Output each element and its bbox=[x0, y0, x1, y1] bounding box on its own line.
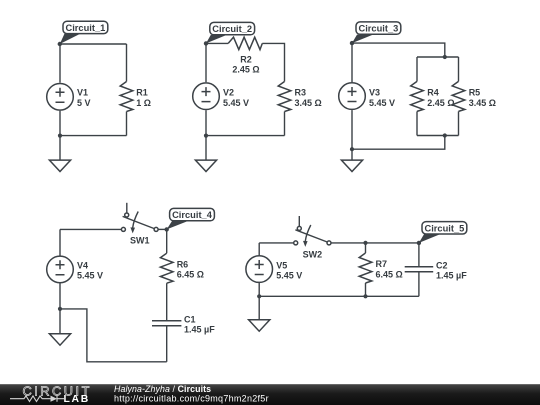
resistor R7 bbox=[359, 253, 403, 283]
resistor R3 bbox=[278, 82, 322, 112]
svg-text:http://circuitlab.com/c9mq7hm2: http://circuitlab.com/c9mq7hm2n2f5r bbox=[114, 394, 269, 404]
wire V2 bottom lead bbox=[205, 110, 207, 135]
wire R6 to C1 bbox=[166, 283, 168, 320]
wire R1 bottom lead bbox=[126, 112, 128, 136]
voltage source V5 bbox=[246, 256, 302, 283]
wire top c1 bbox=[60, 43, 127, 45]
wire V5 bottom lead bbox=[258, 283, 260, 320]
switch SW1 bbox=[121, 203, 158, 246]
wire R3 bottom lead bbox=[284, 112, 286, 136]
svg-text:1.45 µF: 1.45 µF bbox=[184, 325, 215, 335]
node dot c4 bottom junction bbox=[58, 307, 62, 311]
node B c2 (label flag Circuit_2) bbox=[204, 22, 255, 45]
wire C1 bottom lead bbox=[166, 326, 168, 361]
wire ground lead c3 bbox=[351, 149, 353, 160]
node C c3 (label flag Circuit_3) bbox=[350, 22, 401, 45]
capacitor C1 bbox=[152, 314, 215, 334]
node dot c5 R7 top bbox=[363, 241, 367, 245]
wire R6 top lead bbox=[166, 229, 168, 253]
wire bottom rail c3 bbox=[417, 135, 459, 137]
node dot c5 bottom left bbox=[257, 294, 261, 298]
wire top rail c3 bbox=[417, 56, 459, 58]
svg-text:Circuit_2: Circuit_2 bbox=[212, 24, 252, 34]
wire bottom c1 bbox=[60, 135, 127, 137]
wire R1 top lead bbox=[126, 44, 128, 82]
wire bottom c5 bbox=[259, 295, 419, 297]
svg-text:R2: R2 bbox=[240, 55, 252, 65]
resistor R6 bbox=[160, 253, 204, 283]
svg-text:SW2: SW2 bbox=[303, 250, 323, 260]
voltage source V4 bbox=[47, 256, 103, 283]
footer bar bbox=[0, 384, 540, 405]
wire R5 bottom lead bbox=[458, 111, 460, 135]
resistor R4 bbox=[411, 81, 455, 111]
wire top c4 bbox=[60, 228, 121, 230]
wire R7 top lead bbox=[365, 243, 367, 253]
ground c5 bbox=[249, 320, 270, 331]
svg-text:C1: C1 bbox=[184, 314, 196, 324]
svg-text:R6: R6 bbox=[177, 259, 189, 269]
wire V3 bottom lead bbox=[351, 110, 353, 149]
svg-text:3.45 Ω: 3.45 Ω bbox=[469, 98, 496, 108]
svg-text:2.45 Ω: 2.45 Ω bbox=[232, 64, 259, 74]
svg-text:5.45 V: 5.45 V bbox=[77, 271, 103, 281]
ground c4 bbox=[49, 334, 70, 345]
svg-text:6.45 Ω: 6.45 Ω bbox=[376, 270, 403, 280]
svg-text:2.45 Ω: 2.45 Ω bbox=[427, 98, 454, 108]
wire top-left c2 bbox=[206, 42, 228, 44]
switch SW2 bbox=[294, 216, 331, 260]
node dot c1 junction bottom bbox=[58, 134, 62, 138]
wire bottom c4 bbox=[60, 309, 167, 362]
svg-text:Circuit_1: Circuit_1 bbox=[66, 23, 106, 33]
voltage source V3 bbox=[339, 83, 395, 110]
ground c1 bbox=[49, 160, 70, 171]
voltage source V2 bbox=[193, 83, 249, 110]
resistor R5 bbox=[452, 81, 496, 111]
wire top c5 bbox=[259, 242, 293, 244]
svg-text:SW1: SW1 bbox=[130, 236, 150, 246]
node D c4 (label flag Circuit_4) bbox=[165, 208, 215, 231]
resistor R2 (horizontal) bbox=[228, 37, 262, 74]
wire left c5 bbox=[258, 243, 260, 255]
wire top c3 bbox=[352, 43, 445, 57]
node A c1 (label flag Circuit_1) bbox=[58, 21, 108, 46]
wire switch to node c4 bbox=[158, 228, 167, 230]
wire left c2 bbox=[205, 43, 207, 82]
svg-text:Circuit_5: Circuit_5 bbox=[425, 223, 465, 233]
node dot c5 R7 bottom bbox=[363, 294, 367, 298]
capacitor C2 bbox=[405, 260, 468, 280]
svg-text:1 Ω: 1 Ω bbox=[136, 98, 151, 108]
svg-text:R4: R4 bbox=[427, 88, 439, 98]
CircuitLab logo squiggle (resistor + diode) bbox=[10, 396, 64, 402]
wire top-right c2 bbox=[262, 43, 284, 81]
wire bottom c2 bbox=[206, 135, 285, 137]
svg-text:V1: V1 bbox=[77, 88, 88, 98]
node E c5 (label flag Circuit_5) bbox=[417, 222, 467, 245]
svg-text:Circuit_3: Circuit_3 bbox=[359, 24, 399, 34]
ground c2 bbox=[195, 160, 216, 171]
wire ground lead c2 bbox=[205, 136, 207, 161]
svg-text:V2: V2 bbox=[223, 88, 234, 98]
svg-text:LAB: LAB bbox=[64, 394, 90, 405]
node dot c2 junction bottom bbox=[204, 134, 208, 138]
wire C2 top lead bbox=[418, 243, 420, 266]
svg-text:5 V: 5 V bbox=[77, 98, 91, 108]
wire V4 bottom lead bbox=[59, 283, 61, 334]
wire ground lead c1 bbox=[59, 136, 61, 161]
node dot c3 top rail bbox=[443, 55, 447, 59]
svg-text:Circuit_4: Circuit_4 bbox=[172, 210, 213, 220]
wire R5 top lead bbox=[458, 57, 460, 81]
svg-text:R7: R7 bbox=[376, 259, 388, 269]
svg-text:3.45 Ω: 3.45 Ω bbox=[295, 98, 322, 108]
node dot c3 bottom junction bbox=[350, 147, 354, 151]
wire left c1 bbox=[59, 44, 61, 83]
svg-text:5.45 V: 5.45 V bbox=[369, 98, 395, 108]
wire R7 bottom lead bbox=[365, 283, 367, 296]
resistor R1 bbox=[120, 82, 151, 112]
svg-text:5.45 V: 5.45 V bbox=[223, 98, 249, 108]
wire R4 top lead bbox=[416, 57, 418, 81]
svg-text:5.45 V: 5.45 V bbox=[276, 271, 302, 281]
svg-text:R5: R5 bbox=[469, 88, 481, 98]
wire bottom c3 bbox=[352, 136, 445, 150]
wire C2 bottom lead bbox=[418, 272, 420, 296]
svg-text:R1: R1 bbox=[136, 88, 148, 98]
wire switch to node c5 bbox=[331, 242, 419, 244]
ground c3 bbox=[341, 160, 362, 171]
svg-text:1.45 µF: 1.45 µF bbox=[436, 271, 467, 281]
node dot c3 bottom rail bbox=[443, 133, 447, 137]
svg-text:V4: V4 bbox=[77, 260, 88, 270]
wire V1 bottom lead bbox=[59, 111, 61, 136]
wire left c3 bbox=[351, 43, 353, 82]
svg-text:R3: R3 bbox=[295, 88, 307, 98]
voltage source V1 bbox=[47, 84, 91, 111]
wire left c4 bbox=[59, 229, 61, 255]
svg-text:V5: V5 bbox=[276, 260, 287, 270]
svg-text:6.45 Ω: 6.45 Ω bbox=[177, 270, 204, 280]
svg-text:C2: C2 bbox=[436, 260, 448, 270]
wire R4 bottom lead bbox=[416, 111, 418, 135]
svg-text:V3: V3 bbox=[369, 88, 380, 98]
